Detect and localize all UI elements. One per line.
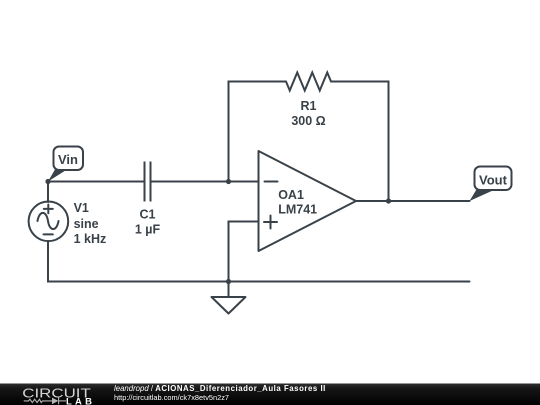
wire V1 bottom to ground net — [48, 241, 470, 282]
svg-text:1 µF: 1 µF — [135, 223, 161, 237]
wire Vin node to V1 top — [47, 182, 49, 203]
V1 minus symbol — [44, 233, 53, 235]
wire op-amp output to Vout — [356, 200, 470, 202]
node output junction dot — [386, 198, 391, 203]
svg-text:LM741: LM741 — [278, 203, 317, 217]
svg-text:V1: V1 — [74, 201, 89, 215]
svg-text:http://circuitlab.com/ck7x8etv: http://circuitlab.com/ck7x8etv5n2z7 — [114, 393, 229, 402]
node A junction dot (Vin) — [45, 179, 50, 184]
svg-text:R1: R1 — [301, 99, 317, 113]
svg-text:sine: sine — [74, 217, 99, 231]
op-amp plus pin symbol — [264, 216, 277, 229]
flag Vin — [48, 147, 83, 182]
label OA1 value — [278, 188, 317, 217]
svg-text:C1: C1 — [140, 208, 156, 222]
wire Vin node to C1 left plate — [48, 181, 145, 183]
node ground junction dot — [226, 279, 231, 284]
ground symbol — [212, 282, 246, 314]
wire top net: R1 right to output node — [331, 82, 389, 202]
source V1 circle — [29, 202, 69, 242]
wire op-amp non-inverting input to ground net — [229, 222, 259, 282]
op-amp U1 triangle — [259, 151, 357, 251]
svg-text:300 Ω: 300 Ω — [291, 114, 325, 128]
label R1 value — [291, 99, 325, 128]
svg-text:Vin: Vin — [58, 152, 78, 167]
capacitor C1 — [145, 162, 151, 202]
svg-text:LAB: LAB — [66, 396, 92, 405]
wire top net: left vertical from node A up to R1 — [229, 82, 287, 182]
resistor R1 — [286, 73, 331, 91]
label C1 value — [135, 208, 161, 237]
wire C1 right plate to op-amp inverting input — [151, 181, 259, 183]
svg-text:OA1: OA1 — [278, 188, 304, 202]
node B junction dot (inverting input net) — [226, 179, 231, 184]
svg-text:Vout: Vout — [479, 173, 508, 188]
label V1 value — [74, 201, 107, 246]
flag Vout — [470, 167, 512, 202]
svg-text:1 kHz: 1 kHz — [74, 232, 107, 246]
op-amp minus pin symbol — [265, 181, 278, 183]
V1 sine glyph — [38, 213, 59, 229]
logo resistor-diode glyph — [24, 398, 66, 405]
V1 plus symbol — [44, 205, 53, 214]
svg-text:leandropd / ACIONAS_Diferencia: leandropd / ACIONAS_Diferenciador_Aula F… — [114, 384, 326, 393]
